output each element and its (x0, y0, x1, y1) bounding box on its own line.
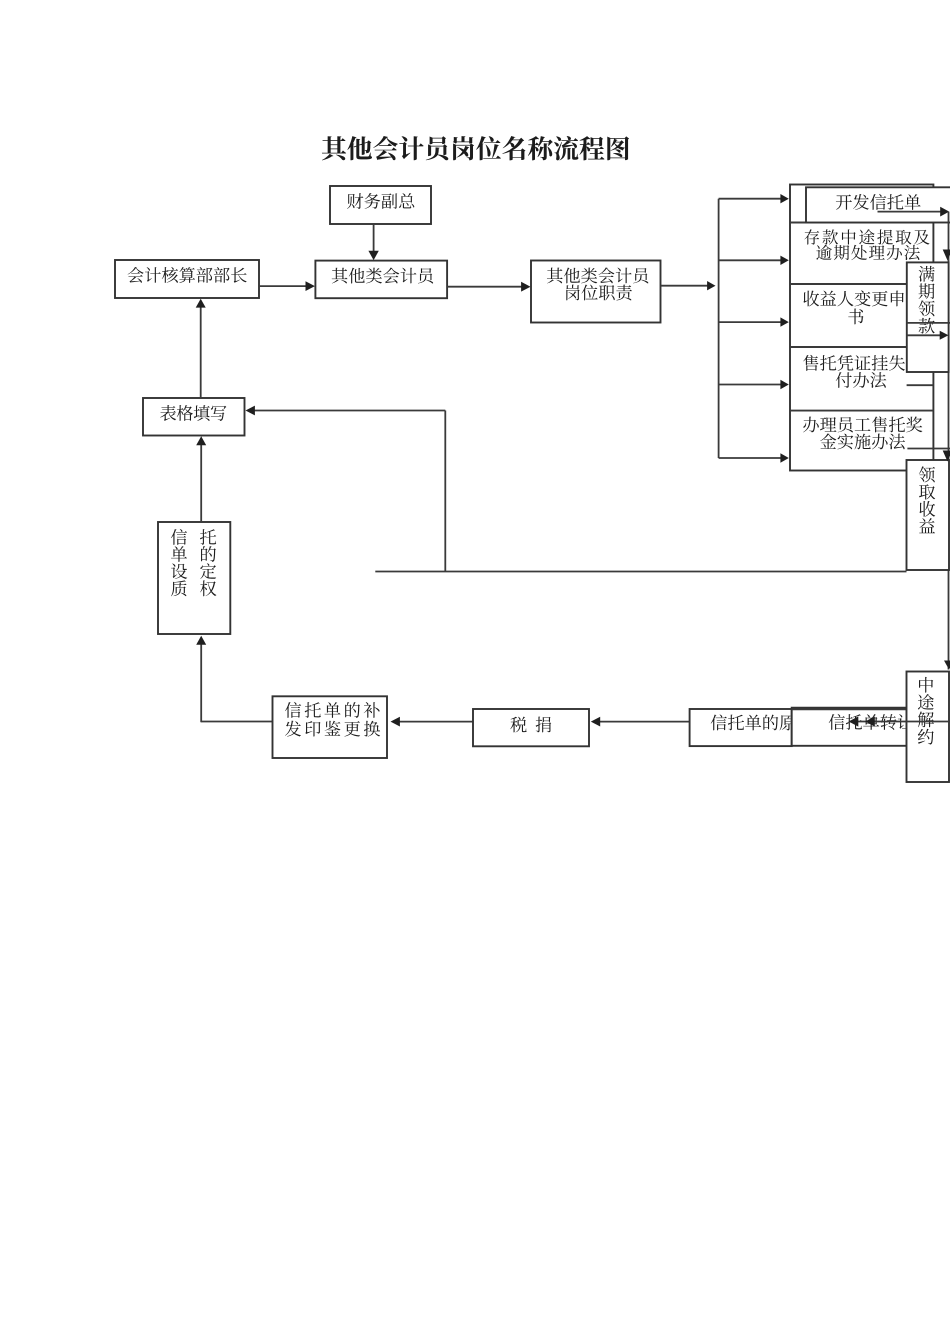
arrowhead into 中途解约 (944, 661, 950, 670)
arrow chain line into 信托单转让 (849, 716, 950, 726)
box 信托单的设定质权 (158, 522, 230, 634)
text 金实施办法 (820, 433, 905, 449)
arrow branch4 to 售托凭证挂失 (719, 380, 789, 389)
arrow 开发信托单 to right edge line (878, 207, 950, 217)
text 开发信托单 (836, 194, 921, 210)
separator line cell4/cell5 (790, 410, 933, 412)
arrow 会计核算部部长 to 其他类会计员 (259, 281, 315, 291)
arrow 岗位职责 to fan (661, 281, 716, 290)
text 其他类会计员 (332, 268, 433, 284)
text 收益人变更申 (803, 290, 903, 306)
box 其他类会计员岗位职责 (531, 261, 661, 323)
text 信托单的补 (line1) (285, 702, 380, 718)
box 满期领款 (907, 262, 949, 372)
text 发印鉴更换 (line2) (285, 721, 380, 737)
text 信托单转让 (829, 714, 914, 730)
arrow elbow 补发印鉴更换 to 设定质权 (196, 636, 272, 722)
box 税捐 (473, 709, 589, 746)
arrow 满期领款 to right (907, 331, 949, 340)
text 办理员工售托奖 (803, 416, 922, 432)
separator line cell2/cell3 (790, 283, 933, 285)
box 领取收益 (907, 460, 950, 570)
arrow branch5 to 办理员工 (719, 453, 789, 462)
text 会计核算部部长 (128, 267, 247, 283)
text 书 (848, 309, 863, 325)
arrow branch2 to 存款中途提取 (719, 256, 789, 265)
arrow branch1 to 开发信托单 (719, 194, 789, 203)
text 其他类会计员 (line1) (547, 268, 648, 284)
box 开发信托单 (inner, clipped at page edge) (806, 187, 950, 222)
wire line right of 金实施办法 (907, 448, 950, 450)
separator line cell3/cell4 (790, 346, 933, 348)
wire crossing line over 信托单转让 (top of 原 box extended) (792, 708, 907, 710)
arrow 财务副总 to 其他类会计员 (368, 224, 378, 260)
box 财务副总 (330, 186, 431, 224)
arrowhead into 满期领款 (943, 250, 950, 261)
wire line right of 付办法 (907, 384, 934, 386)
wire long horizontal line to riser (375, 571, 906, 573)
arrow into 表格填写 from riser (246, 406, 446, 416)
text 单的 row2 (171, 546, 216, 562)
text 质权 row4 (171, 580, 216, 596)
text 财务副总 (347, 193, 414, 209)
arrow 表格填写 to 会计核算部部长 (196, 299, 206, 398)
arrowhead into 领取收益 (943, 451, 950, 462)
text 满期领款 (vertical) (918, 266, 934, 334)
arrow 信托单的原 to 税捐 (591, 717, 690, 727)
text 信托单的原 (clipped) (711, 714, 796, 730)
text 付办法 (836, 372, 887, 388)
title 其他会计员岗位名称流程图 (322, 136, 629, 160)
text 表格填写 (160, 405, 226, 421)
text 领取收益 (vertical) (919, 466, 935, 533)
text 售托凭证挂失 (803, 355, 905, 371)
text 信托 row1 (171, 529, 216, 545)
wire fan vertical line (718, 199, 720, 458)
arrow 设定质权 to 表格填写 (196, 436, 206, 522)
box 信托单转让 (792, 708, 907, 746)
box 其他类会计员 (315, 261, 447, 299)
text 中途解约 (vertical) (918, 677, 934, 745)
text 岗位职责 (line2) (566, 285, 632, 301)
text 设定 row3 (171, 563, 216, 579)
arrow branch3 to 收益人变更 (719, 317, 789, 326)
wire right-edge vertical line (948, 212, 950, 670)
wire line right of 书 (907, 322, 950, 324)
wire riser vertical (444, 411, 446, 572)
box 会计核算部部长 (115, 260, 259, 298)
box 中途解约 (907, 672, 950, 783)
box 信托单的原状 (clipped) (690, 709, 792, 746)
arrow 税捐 to 补发印鉴更换 (391, 717, 473, 727)
separator line cell1/cell2 (790, 222, 933, 224)
text 税捐 (510, 717, 551, 733)
box 信托单的补发印鉴更换 (273, 696, 388, 758)
box stack outer (duty list container) (790, 185, 933, 471)
arrow 其他类会计员 to 岗位职责 (447, 282, 530, 292)
text 存款中途提取及 (804, 229, 929, 244)
text 逾期处理办法 (816, 245, 920, 260)
box 表格填写 (143, 398, 245, 436)
